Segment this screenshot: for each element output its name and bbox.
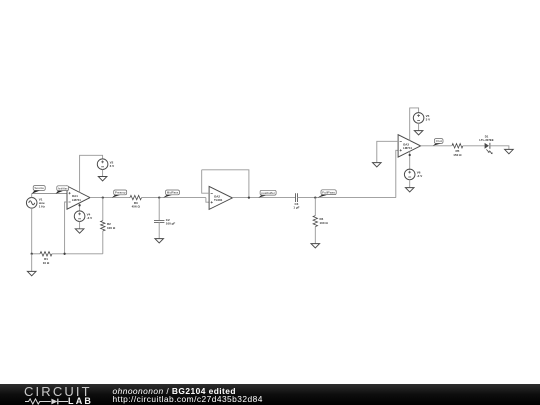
net flag MidPass: [163, 195, 172, 198]
svg-text:150 Ω: 150 Ω: [453, 153, 462, 157]
wire OA3 output to R5: [421, 145, 452, 147]
wire R5 to LED D1: [463, 145, 485, 147]
ground below V2: [98, 177, 107, 181]
wire OA1 V- pin to V4: [79, 203, 81, 211]
svg-text:3 V: 3 V: [110, 164, 115, 168]
voltage source V4 (-3 V): [74, 211, 85, 222]
svg-text:3 V: 3 V: [426, 118, 431, 122]
wire OA3 inverting input to ground: [377, 141, 398, 162]
ground at OA3 inverting input: [373, 163, 382, 167]
svg-text:100 Ω: 100 Ω: [107, 226, 116, 230]
capacitor C3 (1 µF): [296, 193, 298, 202]
net flag postbuffer: [258, 195, 267, 198]
capacitor C2 (100 µF): [154, 221, 164, 223]
wire OA2 feedback loop: [202, 170, 249, 198]
junction at R4 node: [314, 196, 316, 198]
op-amp OA3 (LM741): [398, 135, 421, 157]
junction at R2 top: [102, 196, 104, 198]
svg-text:-3 V: -3 V: [417, 174, 423, 178]
ground below V4: [75, 229, 84, 233]
ground below C2: [155, 239, 164, 243]
svg-text:100 Ω: 100 Ω: [320, 221, 329, 225]
junction V1/ground/R1: [31, 253, 33, 255]
wire C2 top: [158, 198, 160, 220]
wire R3 to OA2 stage: [142, 197, 206, 199]
net flag Out: [433, 143, 442, 145]
net flag FullPass: [318, 195, 328, 198]
wire OA3 V- pin to V6: [409, 151, 411, 170]
resistor R3 (456 Ω): [130, 195, 142, 199]
svg-text:10 Ω: 10 Ω: [43, 261, 50, 265]
svg-text:FullPass: FullPass: [322, 190, 335, 194]
resistor R5 (150 Ω): [452, 144, 463, 148]
wire OA2 output: [232, 197, 295, 199]
ground below source rail: [27, 271, 36, 275]
svg-text:-3 V: -3 V: [87, 216, 93, 220]
svg-text:Out: Out: [436, 139, 442, 143]
svg-text:1 Hz: 1 Hz: [39, 205, 46, 209]
svg-text:LM741: LM741: [72, 198, 81, 202]
wire R4 top: [314, 198, 316, 216]
ground below V6: [405, 188, 414, 192]
junction at C2 node: [158, 196, 160, 198]
wire up to OA3 noninverting input: [396, 150, 398, 197]
net flag Source: [32, 190, 41, 193]
wire rail to ground stem: [31, 254, 33, 271]
op-amp OA2 (TL081): [209, 186, 232, 209]
svg-text:100 µF: 100 µF: [166, 222, 176, 226]
wire V1 bottom to rail: [31, 208, 33, 254]
junction feedback to output: [248, 196, 250, 198]
net flag Preamp: [112, 195, 121, 198]
svg-text:MidPass: MidPass: [167, 191, 179, 195]
wire OA2 inverting input up: [202, 170, 209, 193]
ground below V5: [414, 131, 423, 135]
wire R2 bottom to rail: [102, 231, 104, 254]
wire rail right segment: [52, 253, 103, 255]
wire C2 bottom: [158, 222, 160, 239]
voltage source V1 (sine, 1 Hz): [26, 198, 37, 209]
svg-text:Source: Source: [34, 186, 44, 190]
op-amp OA1 (LM741): [67, 186, 90, 209]
wire rail left segment: [32, 253, 40, 255]
net flag AntiAlias: [56, 191, 64, 194]
svg-text:LM741: LM741: [403, 146, 412, 150]
wire OA3 V+ pin to V5: [410, 108, 419, 141]
svg-text:postbuffer: postbuffer: [261, 191, 275, 195]
resistor R2 (100 Ω): [101, 221, 105, 231]
wire Source node to OA1 noninverting input: [32, 193, 67, 195]
LED D1 (LTL-307EE): [485, 143, 489, 149]
voltage source V2 (3 V): [97, 159, 108, 170]
resistor R1 (10 Ω): [40, 252, 52, 256]
svg-text:1 µF: 1 µF: [293, 206, 299, 210]
wire OA1 output to R3: [90, 197, 130, 199]
wire V5 to ground: [418, 123, 420, 130]
resistor R4 (100 Ω): [313, 216, 317, 227]
voltage source V5 (3 V): [413, 113, 424, 124]
wire V1 top stub: [31, 194, 33, 198]
svg-text:TL081: TL081: [214, 198, 223, 202]
wire R2 top: [102, 198, 104, 221]
wire jog to OA2 noninverting input: [206, 198, 209, 203]
svg-text:456 Ω: 456 Ω: [132, 205, 141, 209]
ground below R4: [311, 244, 320, 248]
wire V6 to ground: [409, 180, 411, 188]
wire R4 bottom: [314, 227, 316, 244]
ground at output: [505, 149, 514, 153]
svg-text:Preamp: Preamp: [115, 191, 126, 195]
junction rail to OA1 inverting: [63, 253, 65, 255]
wire V4 to ground: [79, 222, 81, 229]
wire LED cathode to ground: [490, 146, 509, 149]
voltage source V6 (-3 V): [404, 169, 415, 180]
wire OA1 inverting input down to feedback rail: [65, 202, 67, 254]
wire OA1 V+ pin to V2: [80, 155, 103, 192]
svg-text:AntiAlias: AntiAlias: [58, 186, 68, 190]
LED D1 light arrows: [486, 149, 492, 154]
svg-text:LTL-307EE: LTL-307EE: [479, 138, 493, 142]
wire V2 to ground: [102, 170, 104, 177]
wire C3 to OA3 branch: [297, 197, 396, 199]
